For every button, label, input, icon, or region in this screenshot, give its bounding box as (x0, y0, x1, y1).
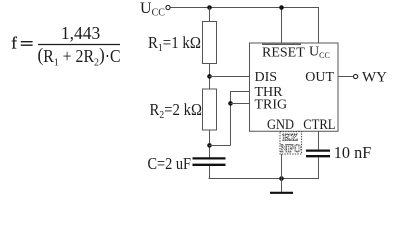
wire R1 bottom to R2 top (209, 64, 211, 90)
junction ground (279, 176, 284, 181)
svg-text:NFO: NFO (281, 141, 302, 155)
svg-text:RESET: RESET (262, 46, 305, 61)
svg-text:R2=2 kΩ: R2=2 kΩ (150, 100, 203, 121)
junction node THR/TRIG to C (207, 143, 212, 148)
wire THR/TRIG riser (230, 91, 232, 146)
svg-text:C=2 uF: C=2 uF (148, 154, 192, 173)
svg-text:R1=1 kΩ: R1=1 kΩ (148, 33, 201, 54)
wire THR (231, 91, 251, 93)
terminal Ucc (open circle) (166, 5, 170, 9)
svg-text:WY: WY (362, 69, 387, 85)
svg-text:DIS: DIS (255, 70, 278, 85)
capacitor C plates (193, 157, 226, 159)
resistor R2 (203, 89, 217, 130)
wire RESET pin drop (281, 8, 283, 44)
op IC U1 555 timer body (250, 43, 339, 131)
net label Ucc (supply) (140, 0, 165, 19)
capacitor 10nF plates (306, 149, 330, 151)
wire R2 bottom lead (209, 130, 211, 158)
junction at R1 top (207, 5, 212, 10)
watermark EZ INFO box (280, 132, 302, 155)
formula f = 1,443 / ((R1+2R2)*C) (11, 23, 120, 68)
wire 10nF bottom lead (318, 157, 320, 178)
wire TRIG (231, 103, 251, 105)
svg-text:1,443: 1,443 (61, 23, 101, 43)
wire node to THR/TRIG riser (209, 145, 231, 147)
wire bottom rail (209, 178, 320, 180)
svg-text:f: f (11, 33, 17, 52)
junction node DIS (207, 74, 212, 79)
terminal OUT (open circle) (354, 74, 358, 78)
wire OUT (338, 76, 353, 78)
wire DIS (209, 76, 250, 78)
wire C bottom lead (209, 166, 211, 179)
resistor R1 (203, 22, 217, 64)
svg-text:(R1 + 2R2)·C: (R1 + 2R2)·C (38, 45, 121, 68)
junction at RESET drop (279, 5, 284, 10)
svg-text:TRIG: TRIG (255, 97, 288, 112)
pin label RESET with overline (262, 44, 305, 60)
svg-text:CTRL: CTRL (303, 117, 335, 133)
junction TRIG (228, 101, 233, 106)
wire R1 top lead (209, 8, 211, 22)
svg-text:OUT: OUT (305, 70, 334, 85)
ground symbol (270, 179, 293, 193)
wire GND pin drop (281, 131, 283, 178)
wire top rail Ucc (170, 7, 319, 9)
wire CTRL pin drop (318, 131, 320, 149)
wire Ucc pin drop (318, 8, 320, 44)
svg-text:10 nF: 10 nF (334, 143, 372, 162)
svg-text:GND: GND (267, 117, 294, 133)
